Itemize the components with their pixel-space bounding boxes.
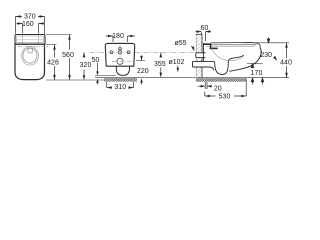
outlet pipe	[193, 62, 215, 67]
fixing step vertical	[210, 43, 212, 49]
trap cover U	[116, 66, 129, 75]
svg-text:426: 426	[47, 60, 59, 67]
ceramic rear face	[202, 43, 204, 62]
ext line top 560	[46, 34, 72, 36]
inlet pipe fill	[196, 53, 206, 58]
middle floor hatch	[104, 78, 137, 82]
fixing lower bar	[210, 48, 218, 50]
middle floor line	[95, 77, 197, 79]
center small hole	[118, 51, 121, 54]
svg-text:310: 310	[114, 84, 126, 91]
outlet pipe bottom	[193, 67, 214, 70]
lid top line	[211, 43, 261, 48]
svg-text:320: 320	[80, 62, 92, 69]
svg-text:220: 220	[137, 68, 149, 75]
arrow onto mid ext	[251, 64, 254, 68]
trap U fill	[215, 62, 229, 75]
arrow 170 under floor	[251, 78, 254, 85]
dim 220 arrows	[140, 56, 143, 83]
dim 50 arrows	[96, 71, 99, 83]
inlet pipe	[196, 53, 206, 58]
dim 160 lines	[17, 24, 45, 34]
dim 426 arrows	[53, 45, 56, 80]
ext mid 230	[247, 63, 263, 65]
bowl outline top view	[15, 44, 45, 79]
cistern inner lid line	[17, 36, 44, 43]
cistern mid line	[17, 39, 44, 41]
dim 370 lines	[16, 17, 45, 34]
arrow 230 under floor	[261, 78, 264, 85]
dim 426 line	[54, 45, 56, 80]
svg-text:60: 60	[201, 25, 209, 32]
dim 530 lines	[205, 79, 246, 97]
svg-text:440: 440	[280, 60, 292, 67]
dim 310 arrows	[107, 86, 134, 89]
dim 180 arrows	[108, 35, 133, 38]
d55 arrow	[192, 46, 194, 49]
svg-text:530: 530	[219, 93, 231, 100]
dim 320 arrows	[83, 52, 86, 79]
fixing bolt bar	[203, 43, 211, 45]
seat opening oval	[23, 48, 37, 63]
ext 220	[136, 59, 145, 61]
outlet pipe fill	[193, 62, 215, 67]
seat opening oval outer	[22, 47, 39, 66]
dim 440 line	[286, 43, 288, 78]
dim 60 lines	[196, 32, 212, 41]
right floor line	[197, 77, 247, 79]
hinge dash line	[18, 45, 50, 47]
seat under line	[206, 46, 255, 48]
svg-text:ø102: ø102	[169, 59, 185, 66]
ext line top 426	[46, 44, 57, 46]
dim 370 arrows	[16, 15, 45, 18]
seat mid line	[211, 44, 257, 46]
right floor hatch	[196, 78, 246, 82]
dim 440 arrows	[285, 43, 288, 78]
dim 560 line	[69, 35, 71, 80]
dim 355	[160, 52, 162, 74]
bowl inner line	[212, 49, 244, 61]
svg-text:560: 560	[62, 52, 74, 59]
flush small circle	[28, 48, 33, 53]
mounting hole left	[110, 51, 113, 54]
cistern top rect	[15, 35, 45, 45]
centerline big hole	[112, 60, 133, 62]
svg-text:160: 160	[22, 21, 34, 28]
cistern inner verticals	[23, 35, 39, 44]
bowl body profile	[229, 47, 261, 71]
dim 320	[83, 52, 85, 79]
rear body outline	[105, 43, 134, 66]
d102 arrow	[177, 66, 179, 70]
wall left face	[195, 34, 197, 82]
svg-text:50: 50	[92, 57, 100, 64]
dim 20 lines	[198, 82, 212, 89]
center big hole	[117, 58, 123, 64]
svg-text:355: 355	[154, 61, 166, 68]
ext top 440	[243, 42, 289, 44]
dim 310 lines	[107, 82, 134, 88]
wall hatch	[196, 34, 202, 81]
centerline horizontal	[90, 51, 207, 53]
svg-text:180: 180	[112, 33, 124, 40]
arrow onto top ext	[267, 37, 270, 42]
dim 220	[141, 55, 143, 84]
dim 20 arrows	[201, 85, 212, 88]
wall top	[196, 33, 202, 35]
dim 60 arrows	[197, 30, 210, 33]
dim 355 arrows	[160, 52, 163, 77]
ext floor right	[246, 77, 289, 79]
dim 530 arrows	[205, 95, 246, 98]
svg-text:170: 170	[251, 70, 263, 77]
dim 160 arrows	[18, 22, 44, 25]
leader 230	[273, 56, 277, 61]
dim 50	[97, 63, 99, 85]
svg-text:20: 20	[214, 85, 222, 92]
dim 560 arrows	[68, 35, 71, 80]
ext trap bottom	[95, 74, 116, 76]
dim 180 lines	[106, 36, 136, 42]
svg-text:370: 370	[24, 14, 36, 21]
centerline vertical	[119, 45, 121, 65]
svg-text:230: 230	[260, 52, 272, 59]
svg-text:ø55: ø55	[175, 40, 187, 47]
mounting hole right	[127, 51, 130, 54]
wall right face	[201, 34, 203, 77]
trap U	[215, 55, 244, 74]
center top hole	[119, 47, 122, 50]
ext line bottom shared	[46, 79, 107, 81]
